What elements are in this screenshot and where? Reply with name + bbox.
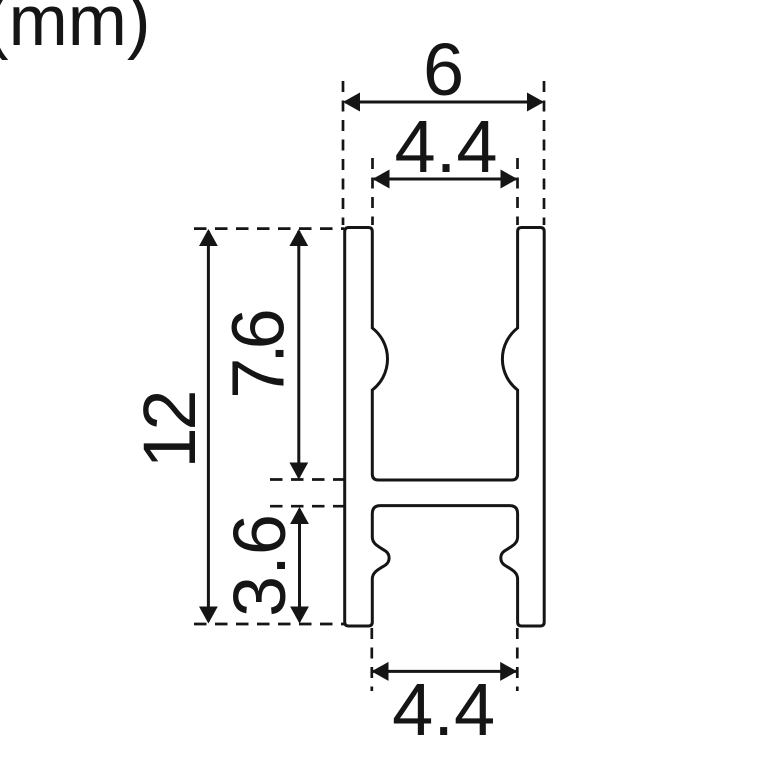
svg-text:4.4: 4.4 <box>392 668 495 751</box>
svg-text:3.6: 3.6 <box>218 514 301 617</box>
dimension line bottom 4.4 <box>373 670 516 673</box>
svg-text:12: 12 <box>128 390 211 469</box>
dimension line top 4.4 <box>374 178 516 181</box>
dashed leader line crossbar bottom level <box>270 505 344 508</box>
extension line right for width 6 <box>543 81 546 225</box>
dashed leader line bottom (profile bottom level) <box>194 623 344 626</box>
svg-text:6: 6 <box>423 28 464 111</box>
extension line left for width 6 <box>342 81 345 225</box>
dimension line 12 <box>207 231 210 622</box>
extension line right for top 4.4 <box>516 158 519 225</box>
extension line right for bottom 4.4 <box>516 628 519 691</box>
dimension line 7.6 <box>297 231 300 478</box>
svg-text:7.6: 7.6 <box>217 308 300 399</box>
svg-text:4.4: 4.4 <box>395 105 498 188</box>
dashed leader line crossbar top level <box>270 478 344 481</box>
dimension line 6 <box>345 101 542 104</box>
extension line left for top 4.4 <box>371 158 374 225</box>
dashed leader line top (profile top level) <box>194 227 344 230</box>
profile cross-section outline (H-shaped extrusion) <box>345 228 545 627</box>
svg-text:(mm): (mm) <box>0 0 151 61</box>
extension line left for bottom 4.4 <box>370 628 373 691</box>
dimension line 3.6 <box>298 509 301 622</box>
